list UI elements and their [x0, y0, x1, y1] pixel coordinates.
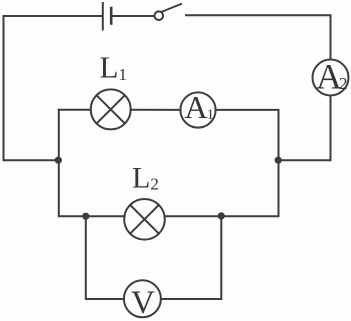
ammeter A2 circle	[313, 60, 349, 96]
wire left outer: down from battery, right to left node	[4, 16, 59, 160]
wire L1 branch left segment	[59, 109, 91, 111]
wire voltmeter branch right: right and up to node	[161, 216, 221, 299]
node junction dot right (main loop / parallel block)	[275, 157, 282, 164]
lamp L2 cross diagonal 2	[130, 205, 158, 233]
wire L2 branch left segment	[86, 215, 125, 217]
wire battery to switch	[113, 15, 155, 17]
wire inner-left vertical with corner to L2 branch	[59, 110, 86, 217]
node junction dot voltmeter left tap	[82, 213, 89, 220]
wire L1 to A1	[131, 109, 181, 111]
voltmeter V circle	[124, 280, 161, 317]
lamp L2 circle	[124, 199, 165, 240]
wire L2 to right node	[165, 215, 222, 217]
wire top-left horizontal (battery left lead)	[4, 15, 103, 17]
node junction dot voltmeter right tap	[218, 212, 225, 219]
lamp L2 cross diagonal 1	[130, 205, 158, 233]
svg-text:V: V	[131, 285, 155, 321]
lamp L1 cross diagonal 2	[97, 95, 125, 123]
battery cell short plate (negative)	[110, 8, 113, 24]
ammeter A1 circle	[180, 92, 215, 127]
wire A1 to right corner, down inner-right vertical to L2 branch	[216, 110, 279, 216]
wire voltmeter branch left: down and right to V	[86, 216, 124, 299]
wire switch to top-right corner	[186, 15, 331, 59]
lamp L1 cross diagonal 1	[97, 95, 125, 123]
switch pivot circle	[155, 11, 164, 20]
switch lever arm (open)	[163, 4, 182, 12]
lamp L1 circle	[91, 89, 131, 129]
node junction dot left (main loop / parallel block)	[55, 157, 62, 164]
battery cell long plate (positive)	[102, 3, 104, 30]
wire A2 down to junction row, left to node	[278, 96, 330, 161]
